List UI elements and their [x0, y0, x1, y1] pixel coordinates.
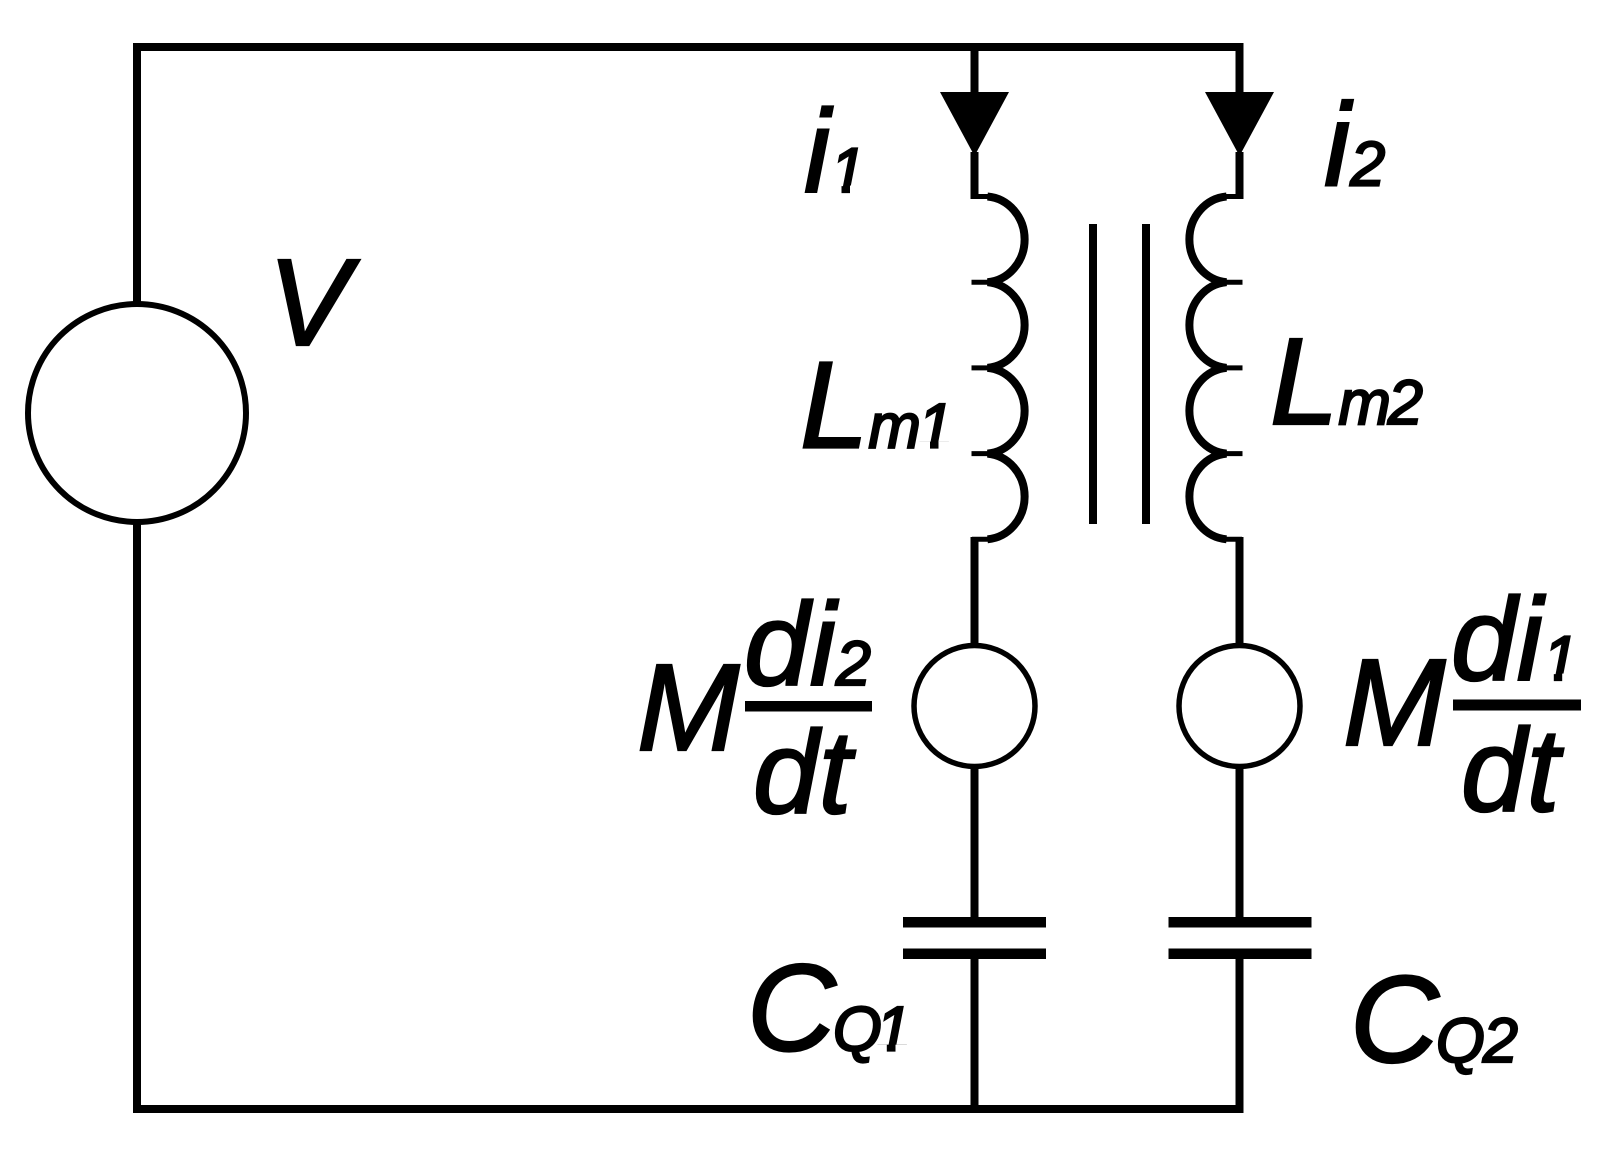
wire: branch 1 capacitor to bottom rail [971, 959, 979, 1110]
arrow i1 current direction [940, 92, 1009, 156]
fraction bar right [1453, 700, 1581, 711]
inductor Lm1 coil [972, 197, 1025, 540]
wire: branch 2 source to capacitor [1236, 766, 1244, 917]
svg-text:dt: dt [753, 707, 856, 839]
inductor Lm2 coil [1189, 197, 1242, 540]
wire: branch 1 stub from top rail [971, 47, 979, 95]
wire: left bottom loop and bottom rail to right branch [137, 523, 1240, 1109]
white patches to remove foot serifs from "1" glyphs (Arial-style 1) [828, 186, 1575, 1054]
capacitor CQ2 plates [1169, 917, 1312, 928]
fraction bar left [745, 701, 872, 712]
wire: branch 1 source to capacitor [971, 766, 979, 917]
wire: branch 1 between arrow and coil [971, 152, 979, 199]
dependent source circle (M di1/dt) [1179, 646, 1300, 767]
wire: left side loop, top wire, right branch drop [137, 47, 1240, 305]
transformer core line 2 [1142, 224, 1150, 524]
wire: branch 2 coil to dependent source [1236, 537, 1244, 646]
svg-text:dt: dt [1461, 705, 1564, 837]
transformer core line 1 [1089, 224, 1097, 524]
svg-text:V: V [268, 235, 360, 372]
arrow i2 current direction [1205, 92, 1274, 156]
voltage source V circle [28, 304, 246, 522]
capacitor CQ1 plates [903, 917, 1046, 928]
svg-text:M: M [637, 640, 740, 777]
dependent source circle (M di2/dt) [914, 646, 1035, 767]
wire: branch 2 between arrow and coil [1236, 152, 1244, 199]
svg-text:M: M [1343, 635, 1446, 772]
wire: branch 1 coil to dependent source [971, 537, 979, 646]
